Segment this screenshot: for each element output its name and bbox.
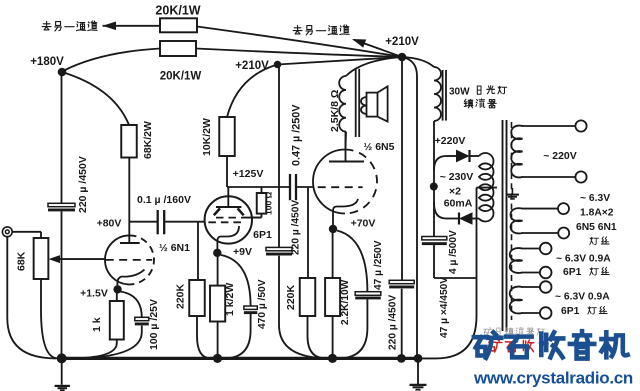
svg-text:220 µ /450V: 220 µ /450V: [77, 156, 89, 213]
svg-text:+9V: +9V: [233, 246, 252, 258]
svg-text:×2: ×2: [449, 186, 461, 198]
svg-text:220 µ /450V: 220 µ /450V: [290, 200, 301, 255]
svg-text:47 µ ×4/450V: 47 µ ×4/450V: [439, 277, 450, 338]
svg-text:68K: 68K: [16, 251, 28, 271]
svg-text:220K: 220K: [175, 283, 187, 309]
svg-text:4 µ /500V: 4 µ /500V: [448, 230, 459, 274]
svg-text:60mA: 60mA: [444, 198, 473, 210]
svg-text:~ 220V: ~ 220V: [543, 150, 577, 162]
svg-text:20K/1W: 20K/1W: [160, 71, 202, 83]
svg-text:6P1: 6P1: [563, 267, 582, 278]
svg-text:220 µ /450V: 220 µ /450V: [388, 295, 399, 350]
svg-text:100 µ /25V: 100 µ /25V: [148, 299, 160, 350]
svg-text:220K: 220K: [285, 284, 297, 310]
svg-text:+125V: +125V: [233, 168, 264, 180]
svg-text:0.1 µ /160V: 0.1 µ /160V: [137, 194, 191, 206]
svg-text:½ 6N1: ½ 6N1: [159, 242, 190, 254]
svg-text:www.crystalradio.cn: www.crystalradio.cn: [473, 369, 633, 388]
svg-text:6N5 6N1: 6N5 6N1: [576, 222, 617, 233]
svg-text:~ 6.3V: ~ 6.3V: [580, 193, 610, 204]
svg-text:½ 6N5: ½ 6N5: [364, 141, 395, 153]
svg-text:+180V: +180V: [30, 56, 64, 68]
svg-text:+80V: +80V: [97, 218, 122, 230]
svg-text:1.8A×2: 1.8A×2: [580, 208, 614, 219]
svg-text:0.47 µ /250V: 0.47 µ /250V: [291, 104, 303, 166]
svg-text:1 k/2W: 1 k/2W: [224, 283, 236, 316]
svg-text:68K/2W: 68K/2W: [142, 121, 154, 159]
svg-text:2.5K/8 Ω: 2.5K/8 Ω: [329, 90, 341, 132]
svg-text:6P1: 6P1: [253, 229, 272, 241]
svg-text:1 k: 1 k: [91, 317, 103, 332]
svg-text:470 µ /50V: 470 µ /50V: [257, 279, 268, 329]
svg-text:2.2K/10W: 2.2K/10W: [340, 279, 351, 325]
svg-text:~ 230V: ~ 230V: [440, 171, 474, 183]
svg-text:+210V: +210V: [385, 36, 419, 48]
svg-text:100 Ω: 100 Ω: [264, 191, 274, 215]
svg-text:47 µ /250V: 47 µ /250V: [373, 240, 384, 290]
svg-text:10K/2W: 10K/2W: [201, 118, 213, 156]
svg-text:+1.5V: +1.5V: [80, 288, 108, 300]
svg-text:6P1: 6P1: [561, 306, 580, 317]
svg-text:~ 6.3V 0.9A: ~ 6.3V 0.9A: [556, 254, 611, 265]
svg-text:+220V: +220V: [435, 135, 466, 147]
svg-text:+70V: +70V: [351, 218, 376, 230]
svg-text:~ 6.3V 0.9A: ~ 6.3V 0.9A: [555, 292, 610, 303]
svg-text:30W: 30W: [449, 87, 470, 98]
svg-text:20K/1W: 20K/1W: [155, 4, 200, 18]
